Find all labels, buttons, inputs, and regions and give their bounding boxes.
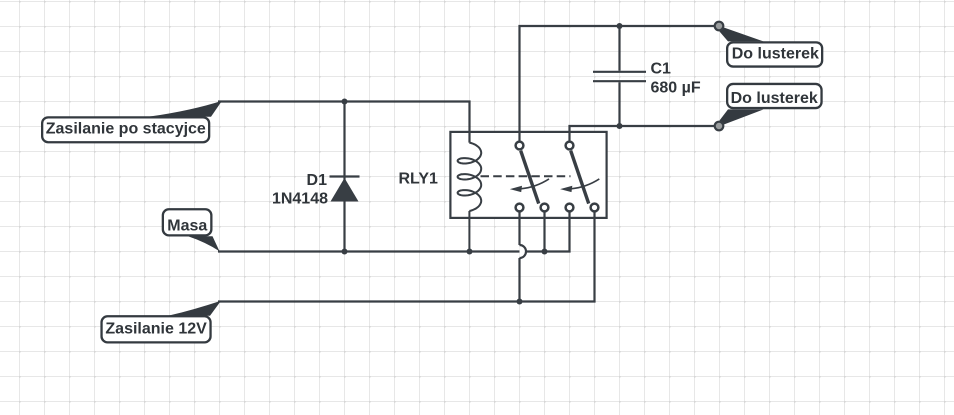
flag box Zasilanie po stacyjce xyxy=(42,117,209,142)
relay arrowhead sw1 xyxy=(510,186,522,192)
flag tail Do lusterek 2 xyxy=(720,109,764,124)
svg-text:1N4148: 1N4148 xyxy=(272,191,328,208)
junction: D1 cathode at Zasilanie po stacyjce net xyxy=(342,99,348,105)
svg-text:C1: C1 xyxy=(651,61,672,78)
wire relay pin 2 stub down to Masa net xyxy=(543,212,545,252)
wire hop: pin 1 wire jumps over Masa net xyxy=(520,245,527,258)
diode D1 cathode bar xyxy=(330,175,360,177)
relay pin 2 circle xyxy=(541,204,549,212)
flag tail Do lusterek 1 xyxy=(720,28,764,42)
relay actuation arrow sw2 (curve) xyxy=(571,179,600,189)
relay sw2 common pin circle xyxy=(566,142,574,150)
wire diode D1 branch vertical xyxy=(343,102,345,252)
svg-text:Zasilanie 12V: Zasilanie 12V xyxy=(105,321,207,338)
relay sw1 common pin circle xyxy=(516,142,524,150)
diode D1 triangle (anode) xyxy=(331,178,359,202)
junction: C1 top at Do lusterek 1 net xyxy=(617,23,623,29)
svg-text:Zasilanie po stacyjce: Zasilanie po stacyjce xyxy=(46,121,206,138)
relay switch blade sw2 xyxy=(571,151,589,204)
wire net Zasilanie po stacyjce: label to coil top xyxy=(218,102,470,143)
inductor coil of relay RLY1 xyxy=(458,143,482,211)
svg-text:Masa: Masa xyxy=(167,218,207,235)
capacitor C1 (plates) xyxy=(593,72,646,81)
flag box Do lusterek 1 xyxy=(727,42,822,66)
wire net Zasilanie 12V horizontal, ends rising to relay pin 4 xyxy=(218,212,595,302)
wire net Masa horizontal, ends rising to relay pin 3 xyxy=(218,212,570,252)
terminal pad Do lusterek 2 xyxy=(715,122,724,131)
junction: relay pin 1 at Zasilanie 12V net xyxy=(517,299,523,305)
junction: coil bottom at Masa net xyxy=(467,249,473,255)
flag box Do lusterek 2 xyxy=(727,84,821,108)
wire coil exit stub down to Masa net xyxy=(468,211,470,252)
relay actuation arrow sw1 (curve) xyxy=(521,179,550,189)
svg-text:D1: D1 xyxy=(307,172,328,189)
junction: relay pin 2 at Masa net xyxy=(542,249,548,255)
junction: C1 bottom at Do lusterek 2 net xyxy=(617,123,623,129)
wire relay pin 1 stub down to 12V net (broken at hop) xyxy=(518,212,520,302)
flag box Zasilanie 12V xyxy=(102,316,211,342)
svg-text:Do lusterek: Do lusterek xyxy=(731,90,818,107)
flag tail Zasilanie 12V xyxy=(168,301,221,316)
wire C1 branch vertical (top and bottom stubs) xyxy=(618,26,620,126)
flag box Masa xyxy=(163,209,212,235)
junction: D1 anode at Masa net xyxy=(342,249,348,255)
flag tail Zasilanie po stacyjce xyxy=(148,101,222,117)
relay pin 4 circle xyxy=(591,204,599,212)
svg-text:680 µF: 680 µF xyxy=(651,79,701,96)
svg-text:Do lusterek: Do lusterek xyxy=(732,45,819,62)
relay arrowhead sw2 xyxy=(560,186,572,192)
terminal pad Do lusterek 1 xyxy=(715,22,724,31)
wire net to Do lusterek 1: relay sw1 common pin up and right to terminal xyxy=(520,26,720,141)
relay switch blade sw1 xyxy=(521,151,539,204)
relay U1 body (RLY1 outline box) xyxy=(450,132,606,218)
flag tail Masa xyxy=(188,236,220,251)
relay pin 1 circle xyxy=(516,204,524,212)
relay actuation dashed link line xyxy=(481,175,571,177)
wire net to Do lusterek 2: relay sw2 common pin up and right to terminal xyxy=(570,126,720,141)
svg-text:RLY1: RLY1 xyxy=(399,171,439,188)
relay pin 3 circle xyxy=(566,204,574,212)
